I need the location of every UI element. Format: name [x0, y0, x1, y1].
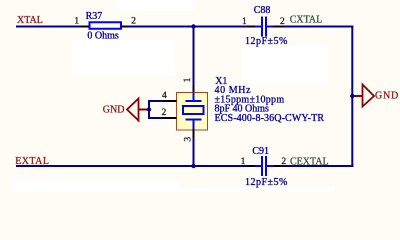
junction top of X1: [191, 24, 195, 28]
svg-text:GND: GND: [375, 90, 399, 101]
junction left GND: [147, 107, 151, 111]
svg-text:12pF±5%: 12pF±5%: [245, 36, 288, 47]
svg-text:1: 1: [241, 157, 246, 167]
svg-text:R37: R37: [86, 11, 103, 22]
svg-text:C88: C88: [254, 5, 271, 16]
capacitor C91 pin 1: [247, 165, 255, 167]
wire R37 to C88: [128, 26, 247, 28]
svg-text:GND: GND: [103, 105, 125, 116]
ground left symbol: [127, 99, 139, 121]
capacitor C88 body: [255, 17, 274, 37]
svg-text:3: 3: [184, 137, 194, 142]
wire GND right stub: [352, 95, 362, 97]
capacitor C91 body: [255, 156, 274, 176]
crystal X1 pin 1: [193, 86, 195, 93]
resistor R37 pin 2: [121, 26, 128, 28]
wire EXTAL bottom: [16, 165, 247, 167]
wire GND left stub: [139, 109, 151, 111]
capacitor C88 pin 1: [247, 26, 255, 28]
svg-text:0 Ohms: 0 Ohms: [87, 31, 119, 42]
svg-text:2: 2: [131, 17, 136, 27]
wire X1 top vertical: [193, 27, 195, 86]
crystal X1 body box: [177, 93, 208, 131]
wire C91 to right bus: [283, 165, 353, 167]
capacitor C88 pin 2: [274, 26, 284, 28]
wire pin2 horizontal: [148, 117, 162, 119]
wire left vertical join: [148, 100, 150, 119]
crystal X1 pin 3: [193, 130, 195, 138]
svg-text:ECS-400-8-36Q-CWY-TR: ECS-400-8-36Q-CWY-TR: [215, 113, 325, 124]
junction bottom of X1: [191, 164, 195, 168]
svg-text:C91: C91: [252, 146, 269, 157]
ground right symbol: [363, 85, 375, 107]
capacitor C91 pin 2: [274, 165, 284, 167]
wire C88 to right bus: [283, 26, 353, 28]
junction right GND tap: [350, 94, 354, 98]
crystal X1 pin 2: [162, 117, 177, 119]
svg-text:12pF±5%: 12pF±5%: [245, 177, 288, 188]
wire right vertical bus: [351, 26, 353, 168]
resistor R37 pin 1: [81, 26, 90, 28]
svg-text:1: 1: [242, 17, 247, 27]
crystal X1 pin 4: [162, 100, 177, 102]
svg-text:1: 1: [183, 77, 193, 82]
wire XTAL top-left: [16, 26, 81, 28]
svg-text:CXTAL: CXTAL: [290, 15, 323, 26]
wire pin4 horizontal: [148, 100, 162, 102]
svg-text:1: 1: [74, 17, 79, 27]
svg-text:2: 2: [162, 108, 167, 118]
resistor R37 body: [90, 22, 122, 29]
crystal X1 symbol: [183, 93, 204, 130]
wire X1 bottom vertical: [193, 138, 195, 168]
svg-text:XTAL: XTAL: [17, 15, 43, 26]
svg-text:4: 4: [162, 91, 167, 101]
